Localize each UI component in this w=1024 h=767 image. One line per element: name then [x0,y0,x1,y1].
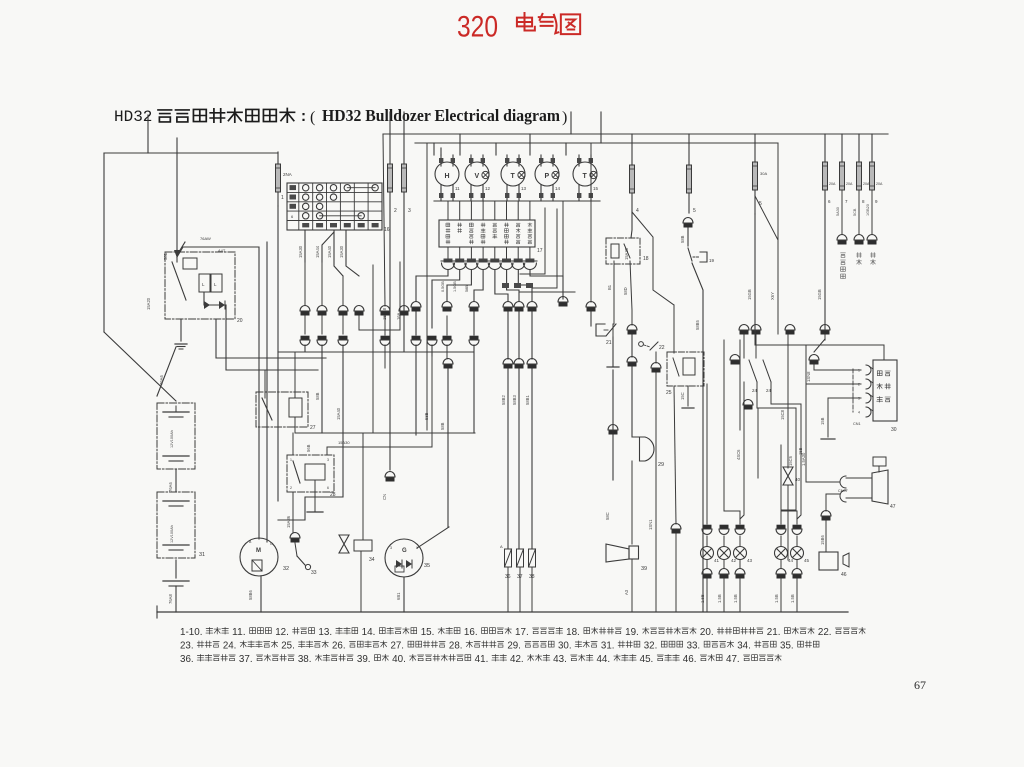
svg-text:1.5B: 1.5B [774,594,779,603]
svg-text:15A40: 15A40 [327,245,332,258]
svg-text:29: 29 [658,462,664,468]
svg-text:5CB: 5CB [853,208,857,216]
svg-text:28: 28 [330,492,336,498]
svg-text:15C6: 15C6 [788,455,793,466]
svg-text:58B1: 58B1 [525,395,530,405]
svg-text:P: P [545,173,550,180]
svg-text:15C8: 15C8 [780,409,785,420]
wire spine diagonal to battery [104,332,176,401]
wire top-left bus [104,152,278,154]
AC control panel box [873,360,897,433]
wires col 632 down [631,193,632,238]
svg-text:2NA: 2NA [283,172,292,177]
svg-text:CN: CN [382,494,387,500]
svg-text:76A6: 76A6 [159,375,164,385]
compressor 46 [825,516,827,552]
svg-text:33.: 33. [687,640,701,651]
wire arrow into relay 20 [176,250,178,262]
fuse F5b [687,134,697,214]
svg-text:H: H [445,173,450,180]
switch 33 [290,533,300,543]
wire top bus C [415,142,778,144]
fuse block grid 16 [287,183,390,233]
svg-text:32: 32 [283,566,289,572]
wire mid horizontals [216,319,326,358]
svg-text:4SC6: 4SC6 [736,449,741,460]
page title 320 dianqitu (red) [457,11,580,44]
svg-text:16.: 16. [464,627,478,638]
svg-text:A3: A3 [624,589,629,595]
svg-text:HD32: HD32 [114,108,152,126]
svg-text:M: M [256,548,261,554]
wires right of box17 down [520,208,545,274]
svg-text:31: 31 [199,552,205,558]
svg-text:1.5B: 1.5B [717,594,722,603]
svg-text:17.: 17. [515,627,529,638]
legend line 2 [180,640,819,651]
wire x427 drop [426,143,428,430]
svg-text:0.5GB: 0.5GB [441,281,445,292]
wire col 703 down [692,263,703,612]
wire from F1 down [277,206,279,501]
svg-text:A4T: A4T [218,248,226,253]
svg-text:1-10.: 1-10. [180,627,202,638]
battery 31 lower cell [157,492,205,558]
wires motor feeds [260,576,262,612]
wires relay28 [314,480,316,512]
backup buzzer 39 [612,370,614,480]
svg-text:25.: 25. [281,640,295,651]
svg-text:13: 13 [521,186,527,191]
wire busB left drop x385 [383,134,385,306]
svg-text:76A6: 76A6 [168,482,173,492]
svg-text:15.: 15. [421,627,435,638]
svg-text:1: 1 [290,458,292,462]
wire gauge top feeds [433,143,435,155]
svg-text:26.: 26. [332,640,346,651]
svg-text:15A40: 15A40 [336,407,341,420]
svg-text:41.: 41. [475,654,489,665]
wire h447 [327,446,432,448]
fuse F5 30A [753,134,768,214]
svg-text:30: 30 [891,427,897,433]
svg-text:3: 3 [327,458,329,462]
svg-text:12: 12 [485,186,491,191]
wire crossing lamp bars [441,260,537,262]
svg-text:42: 42 [731,558,737,563]
fuse F6 [823,134,836,204]
svg-text:1: 1 [281,195,284,201]
svg-text:37.: 37. [239,654,253,665]
monitor box 17 [439,220,535,247]
svg-text:A: A [500,544,503,549]
svg-text:43: 43 [747,558,753,563]
svg-text:14.: 14. [362,627,376,638]
legend line 3 [180,654,781,665]
svg-text:T: T [511,173,516,180]
connector end of wire x390 [385,472,395,482]
svg-text:18: 18 [643,256,649,262]
svg-text:31.: 31. [601,640,615,651]
svg-text:1.5GB: 1.5GB [453,281,457,292]
svg-text:45: 45 [804,558,810,563]
svg-text:42.: 42. [510,654,524,665]
svg-text:15C: 15C [680,392,685,400]
svg-text:58D: 58D [623,287,628,295]
svg-text:15B6: 15B6 [820,535,825,545]
svg-text:36.: 36. [180,654,194,665]
svg-text:44: 44 [788,558,794,563]
switch 21 [590,312,592,326]
svg-text:15B: 15B [820,417,825,425]
svg-text:76A8: 76A8 [168,594,173,604]
svg-text:3: 3 [408,208,411,214]
svg-text:15: 15 [593,186,599,191]
svg-text:58B5: 58B5 [695,320,700,330]
sensor 37 [517,549,524,612]
svg-text:1.5B: 1.5B [790,594,795,603]
wires into AC panel [814,339,825,352]
relay box 20 (battery relay) [165,252,243,324]
wires cols above lamps [706,384,708,524]
svg-text:46.: 46. [683,654,697,665]
middle CN columns [411,297,596,346]
wire under-gauge bus [434,200,600,202]
svg-text:1.5B: 1.5B [733,594,738,603]
svg-text:44.: 44. [596,654,610,665]
wire relay20 to ground [180,319,182,341]
left indicator columns [300,262,364,346]
lamp 44 [774,525,794,612]
switch 19 [688,248,692,261]
svg-text:15A44: 15A44 [315,245,320,258]
diagram heading HD32 bulldozer [114,106,567,126]
lamp 45 [790,525,810,612]
fuse F7 [840,134,853,204]
sensor 38 [529,549,536,612]
fuse F8 [857,134,870,204]
lamps under box17 [442,247,537,270]
starter motor 32 [240,538,289,576]
wire lamp pair links [724,511,740,524]
solenoid valve 40 [783,467,793,485]
svg-text:320: 320 [457,11,498,44]
wire left spine [103,153,105,332]
svg-text:3: 3 [390,546,392,550]
wire right verticals [673,305,675,353]
svg-text:29.: 29. [507,640,521,651]
wire long verticals center-bottom [431,356,433,447]
svg-text:15GB: 15GB [817,289,822,300]
svg-text:6: 6 [327,486,329,490]
svg-text:27.: 27. [390,640,404,651]
svg-text:21.: 21. [767,627,781,638]
fuse F1 20A [276,152,292,206]
wire bottom bus [157,611,848,613]
svg-text:20: 20 [237,318,243,324]
svg-text:4: 4 [636,208,639,214]
svg-text:6B1: 6B1 [396,592,401,600]
svg-text:28.: 28. [449,640,463,651]
svg-text:25: 25 [666,390,672,396]
wires feeders to side lamps [781,408,796,521]
svg-text:20A: 20A [846,182,853,186]
svg-text:22.: 22. [818,627,832,638]
svg-text:43.: 43. [553,654,567,665]
alternator 35 [385,539,430,577]
CN pair above switch24 [730,355,740,365]
relay box 18 [606,238,649,264]
svg-text:19: 19 [709,258,715,263]
battery link [175,469,177,492]
svg-text:20A: 20A [876,182,883,186]
CN row y333 right [739,325,749,335]
svg-text:18.: 18. [566,627,580,638]
svg-text:34: 34 [369,557,375,563]
svg-text:CN07: CN07 [838,489,848,493]
wire top bus B [383,133,888,135]
svg-text:35.: 35. [780,640,794,651]
svg-text:4: 4 [858,411,860,415]
svg-text:V: V [475,173,480,180]
svg-text:15A30: 15A30 [338,440,350,445]
svg-text:21: 21 [606,340,612,346]
wires left columns to horizontals [305,345,473,352]
wires box17 top stubs [447,201,449,220]
svg-text:58C: 58C [605,512,610,520]
svg-text:34.: 34. [737,640,751,651]
battery 31 upper cell [157,403,195,469]
relay box 28 [287,455,336,498]
svg-text:35: 35 [424,563,430,569]
svg-text:19.: 19. [625,627,639,638]
fan-out wires below lamps [416,270,448,301]
svg-text:5A30: 5A30 [836,207,840,216]
svg-text:12V100Ah: 12V100Ah [170,430,174,448]
svg-text:2: 2 [394,208,397,214]
lamp 43 [733,525,753,612]
svg-text:39.: 39. [357,654,371,665]
svg-text:12V100Ah: 12V100Ah [170,525,174,543]
svg-text:58B2: 58B2 [501,395,506,405]
svg-text:45.: 45. [640,654,654,665]
svg-text:30.: 30. [558,640,572,651]
svg-text::: : [299,109,308,126]
svg-text:CN1: CN1 [853,422,861,426]
legend line 1 [180,627,865,638]
wire 76AW horizontal [177,242,185,255]
horn 29 [640,437,655,461]
fuse F4 [630,134,640,214]
svg-text:1GB20: 1GB20 [866,204,870,216]
svg-text:1.5B: 1.5B [700,594,705,603]
lamp 41 [700,525,720,612]
wire x373 [372,265,374,433]
AC panel connectors [866,365,871,375]
wire riser x148 [147,115,149,153]
svg-text:47: 47 [890,504,896,510]
svg-text:40.: 40. [392,654,406,665]
svg-text:27: 27 [310,425,316,431]
vertical CJK labels under top-right connectors [841,253,846,258]
wires alternator [403,577,405,612]
svg-text:39: 39 [641,566,647,572]
svg-text:32.: 32. [644,640,658,651]
wires under fuses 6-9 [824,190,826,330]
svg-text:24.: 24. [223,640,237,651]
svg-text:20A: 20A [829,182,836,186]
switch pair 24 [749,360,757,382]
pressure switch 47 [873,457,886,466]
fuse F2 [388,164,398,214]
svg-text:): ) [562,109,567,126]
gauge cluster top [435,155,599,201]
svg-text:56B: 56B [306,444,311,452]
svg-text:20A: 20A [863,182,870,186]
relay box 27 [256,392,316,431]
svg-text:X6Y: X6Y [770,292,775,300]
svg-text:58B: 58B [424,412,429,420]
svg-text:14: 14 [555,186,561,191]
valve 34 [339,433,375,563]
svg-text:76AW: 76AW [200,236,211,241]
svg-text:11: 11 [455,186,460,191]
svg-text:58B3: 58B3 [512,395,517,405]
svg-text:B1: B1 [607,284,612,290]
svg-text:58B: 58B [315,392,320,400]
svg-text:T: T [583,173,588,180]
svg-text:58B: 58B [465,285,469,292]
svg-text:15A20: 15A20 [146,297,151,310]
svg-text:HD32 Bulldozer Electrical diag: HD32 Bulldozer Electrical diagram [322,106,560,125]
svg-text:47.: 47. [726,654,740,665]
wires below fuse grid [304,230,306,262]
svg-text:15A30: 15A30 [298,245,303,258]
wire h433 [295,432,475,434]
svg-text:22: 22 [659,345,665,351]
svg-text:15A30: 15A30 [339,245,344,258]
svg-text:30A: 30A [760,171,767,176]
svg-text:41: 41 [714,558,720,563]
svg-text:1SN8: 1SN8 [806,371,811,382]
fuse F3 [402,164,412,214]
fuse F9 [870,134,883,204]
svg-text:58B: 58B [680,235,685,243]
battery to bus [175,560,177,578]
svg-text:2: 2 [290,486,292,490]
svg-text:1SN1: 1SN1 [648,519,653,530]
svg-text:58B6: 58B6 [248,590,253,600]
wire vertical feed x177 [176,138,178,250]
svg-text:16: 16 [384,227,390,233]
svg-text:C: C [270,542,273,546]
svg-text:5: 5 [693,208,696,214]
wire battery diagonal [157,347,176,396]
svg-text:12.: 12. [275,627,289,638]
wires middle columns down [415,312,417,335]
svg-text:17: 17 [537,248,543,254]
dash link AC terminals [852,369,854,412]
svg-text:15B: 15B [798,447,803,455]
wire risers above buses [389,112,391,164]
switch 22 [639,342,644,347]
svg-text:33: 33 [311,570,317,576]
svg-text:11.: 11. [232,627,246,638]
svg-text:23.: 23. [180,640,194,651]
svg-text:46: 46 [841,572,847,578]
svg-text:15A36: 15A36 [286,515,291,528]
svg-text:20.: 20. [700,627,714,638]
sensor 36 [505,549,512,612]
svg-text:(: ( [310,109,315,126]
wires relay27 [264,370,266,398]
svg-text:13.: 13. [318,627,332,638]
svg-text:38.: 38. [298,654,312,665]
svg-text:58B: 58B [440,422,445,430]
relay box 25 [666,352,704,396]
wire col 755 split [754,214,756,330]
wires col 689 down [688,193,690,213]
lamp 42 [717,525,737,612]
svg-text:15GB: 15GB [747,289,752,300]
svg-text:G: G [402,548,407,554]
second row CN [443,359,537,369]
svg-text:67: 67 [914,678,926,692]
